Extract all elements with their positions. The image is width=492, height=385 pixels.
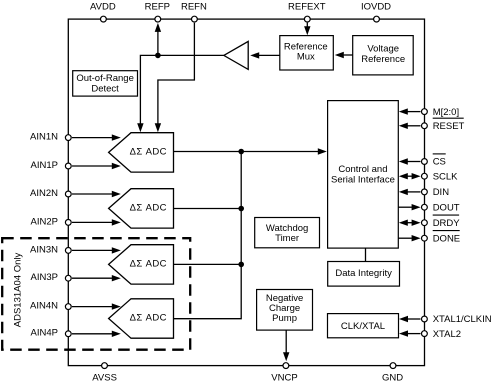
svg-text:AIN4N: AIN4N bbox=[30, 301, 58, 312]
pin DONE bbox=[422, 231, 461, 245]
svg-text:DIN: DIN bbox=[433, 187, 450, 198]
wire CS input bbox=[399, 158, 421, 164]
svg-text:REFEXT: REFEXT bbox=[288, 1, 326, 12]
svg-text:AIN3N: AIN3N bbox=[30, 244, 58, 255]
svg-text:Reference: Reference bbox=[361, 54, 405, 65]
pin AIN3N bbox=[30, 244, 71, 255]
junction bus at ADC3 output bbox=[238, 262, 244, 268]
pin AIN1N bbox=[30, 132, 71, 143]
svg-text:AIN2N: AIN2N bbox=[30, 188, 58, 199]
wire RESET input bbox=[399, 123, 421, 129]
svg-text:REFN: REFN bbox=[181, 1, 207, 12]
dashed box ADS131A04 Only bbox=[2, 238, 190, 350]
pin IOVDD bbox=[361, 1, 391, 22]
pin XTAL1/CLKIN bbox=[422, 314, 492, 325]
pin AVSS bbox=[92, 363, 117, 384]
svg-text:Data Integrity: Data Integrity bbox=[335, 268, 392, 279]
wire SCLK bidirectional bbox=[399, 173, 421, 179]
wire M[2:0] input bbox=[399, 108, 421, 114]
ADC2 delta-sigma converter bbox=[109, 189, 174, 228]
pin M[2:0] bbox=[422, 107, 460, 118]
wire XTAL1/CLKIN input bbox=[399, 316, 421, 322]
svg-text:SCLK: SCLK bbox=[433, 171, 458, 182]
wire DIN input bbox=[399, 189, 421, 195]
wire DONE output bbox=[398, 235, 420, 241]
svg-text:AIN4P: AIN4P bbox=[31, 328, 58, 339]
pin AIN2N bbox=[30, 188, 71, 199]
wire Reference Mux output to buffer bbox=[250, 52, 280, 58]
ADC1 delta-sigma converter bbox=[109, 133, 174, 172]
svg-text:CS: CS bbox=[433, 157, 446, 168]
svg-text:AIN1N: AIN1N bbox=[30, 132, 58, 143]
svg-text:M[2:0]: M[2:0] bbox=[433, 107, 459, 118]
svg-text:ΔΣ ADC: ΔΣ ADC bbox=[130, 259, 167, 270]
block CLK/XTAL bbox=[328, 314, 399, 338]
pin CS bbox=[422, 154, 446, 168]
block Data Integrity bbox=[328, 262, 400, 287]
svg-text:DRDY: DRDY bbox=[433, 218, 461, 229]
svg-text:IOVDD: IOVDD bbox=[361, 1, 391, 12]
svg-text:Mux: Mux bbox=[297, 52, 315, 63]
junction bus at ADC1 output bbox=[238, 149, 244, 155]
pin VNCP bbox=[271, 363, 297, 384]
svg-text:RESET: RESET bbox=[433, 121, 465, 132]
wire AIN4P arrow bbox=[72, 331, 121, 337]
block Voltage Reference bbox=[353, 36, 414, 75]
ADC3 delta-sigma converter bbox=[109, 245, 174, 284]
pin XTAL2 bbox=[422, 329, 462, 340]
svg-text:ΔΣ ADC: ΔΣ ADC bbox=[130, 313, 167, 324]
svg-text:ΔΣ ADC: ΔΣ ADC bbox=[130, 203, 167, 214]
pin DRDY bbox=[422, 215, 461, 229]
svg-text:AVSS: AVSS bbox=[92, 372, 117, 383]
buffer amplifier bbox=[224, 41, 248, 69]
pin AIN4P bbox=[31, 328, 72, 339]
wire AIN1N arrow bbox=[72, 134, 121, 140]
pin AIN2P bbox=[31, 216, 72, 227]
junction bus at ADC2 output bbox=[238, 206, 244, 212]
pin AIN4N bbox=[30, 301, 71, 312]
pin REFP bbox=[145, 1, 170, 22]
svg-text:Detect: Detect bbox=[91, 84, 119, 95]
junction REFP node bbox=[155, 53, 161, 59]
svg-text:XTAL1/CLKIN: XTAL1/CLKIN bbox=[433, 314, 492, 325]
pin AVDD bbox=[90, 1, 116, 22]
pin RESET bbox=[422, 118, 465, 132]
wire Control to Data Integrity bbox=[365, 248, 367, 261]
block Negative Charge Pump bbox=[257, 290, 313, 331]
pin DIN bbox=[422, 187, 450, 198]
wire AIN2P arrow bbox=[72, 219, 121, 225]
block Control and Serial Interface bbox=[328, 101, 399, 249]
pin AIN1P bbox=[31, 160, 72, 171]
svg-text:ADS131A04 Only: ADS131A04 Only bbox=[13, 253, 24, 328]
svg-text:DOUT: DOUT bbox=[433, 202, 460, 213]
wire Voltage Reference to Reference Mux bbox=[335, 52, 353, 58]
pin SCLK bbox=[422, 171, 459, 182]
svg-text:CLK/XTAL: CLK/XTAL bbox=[341, 321, 385, 332]
svg-text:AIN2P: AIN2P bbox=[31, 216, 58, 227]
pin REFN bbox=[181, 1, 207, 22]
svg-text:GND: GND bbox=[382, 372, 403, 383]
wire Negative Charge Pump to VNCP bbox=[283, 330, 289, 361]
svg-text:REFP: REFP bbox=[145, 1, 170, 12]
pin REFEXT bbox=[288, 1, 326, 22]
svg-text:AVDD: AVDD bbox=[90, 1, 116, 12]
block Watchdog Timer bbox=[255, 218, 320, 248]
svg-text:AIN3P: AIN3P bbox=[31, 272, 58, 283]
wire AIN1P arrow bbox=[72, 163, 121, 169]
svg-text:XTAL2: XTAL2 bbox=[433, 329, 461, 340]
wire REFP up-arrow into pin bbox=[155, 23, 161, 56]
wire DOUT output bbox=[398, 204, 420, 210]
svg-text:VNCP: VNCP bbox=[271, 372, 297, 383]
svg-text:AIN1P: AIN1P bbox=[31, 160, 58, 171]
wire ADC2 output bbox=[174, 208, 242, 210]
wire XTAL2 input bbox=[399, 330, 421, 336]
wire ADC4 output and vertical bus bbox=[174, 152, 242, 319]
svg-text:Serial Interface: Serial Interface bbox=[331, 174, 395, 185]
block Reference Mux bbox=[280, 36, 334, 70]
wire junction to buffer output bbox=[158, 54, 224, 56]
chip boundary rectangle bbox=[68, 19, 424, 366]
wire ADC3 output bbox=[174, 263, 242, 265]
svg-text:ΔΣ ADC: ΔΣ ADC bbox=[130, 147, 167, 158]
svg-text:DONE: DONE bbox=[433, 233, 460, 244]
block Out-of-Range Detect bbox=[73, 71, 138, 96]
wire AIN4N arrow bbox=[72, 303, 121, 309]
svg-text:Pump: Pump bbox=[272, 313, 297, 324]
svg-text:Timer: Timer bbox=[275, 233, 299, 244]
pin GND bbox=[382, 363, 403, 384]
wire ADC1 output to Control box bbox=[174, 148, 327, 154]
wire AIN3N arrow bbox=[72, 247, 121, 253]
wire REFP branch down into ADC1 bbox=[137, 55, 158, 132]
wire REFEXT into Reference Mux bbox=[304, 23, 310, 36]
wire REFN down into ADC1 bbox=[155, 23, 195, 133]
ADC4 delta-sigma converter bbox=[109, 299, 174, 338]
wire AIN3P arrow bbox=[72, 275, 121, 281]
pin AIN3P bbox=[31, 272, 72, 283]
pin DOUT bbox=[422, 202, 460, 213]
wire AIN2N arrow bbox=[72, 191, 121, 197]
wire DRDY bidirectional bbox=[399, 220, 421, 226]
